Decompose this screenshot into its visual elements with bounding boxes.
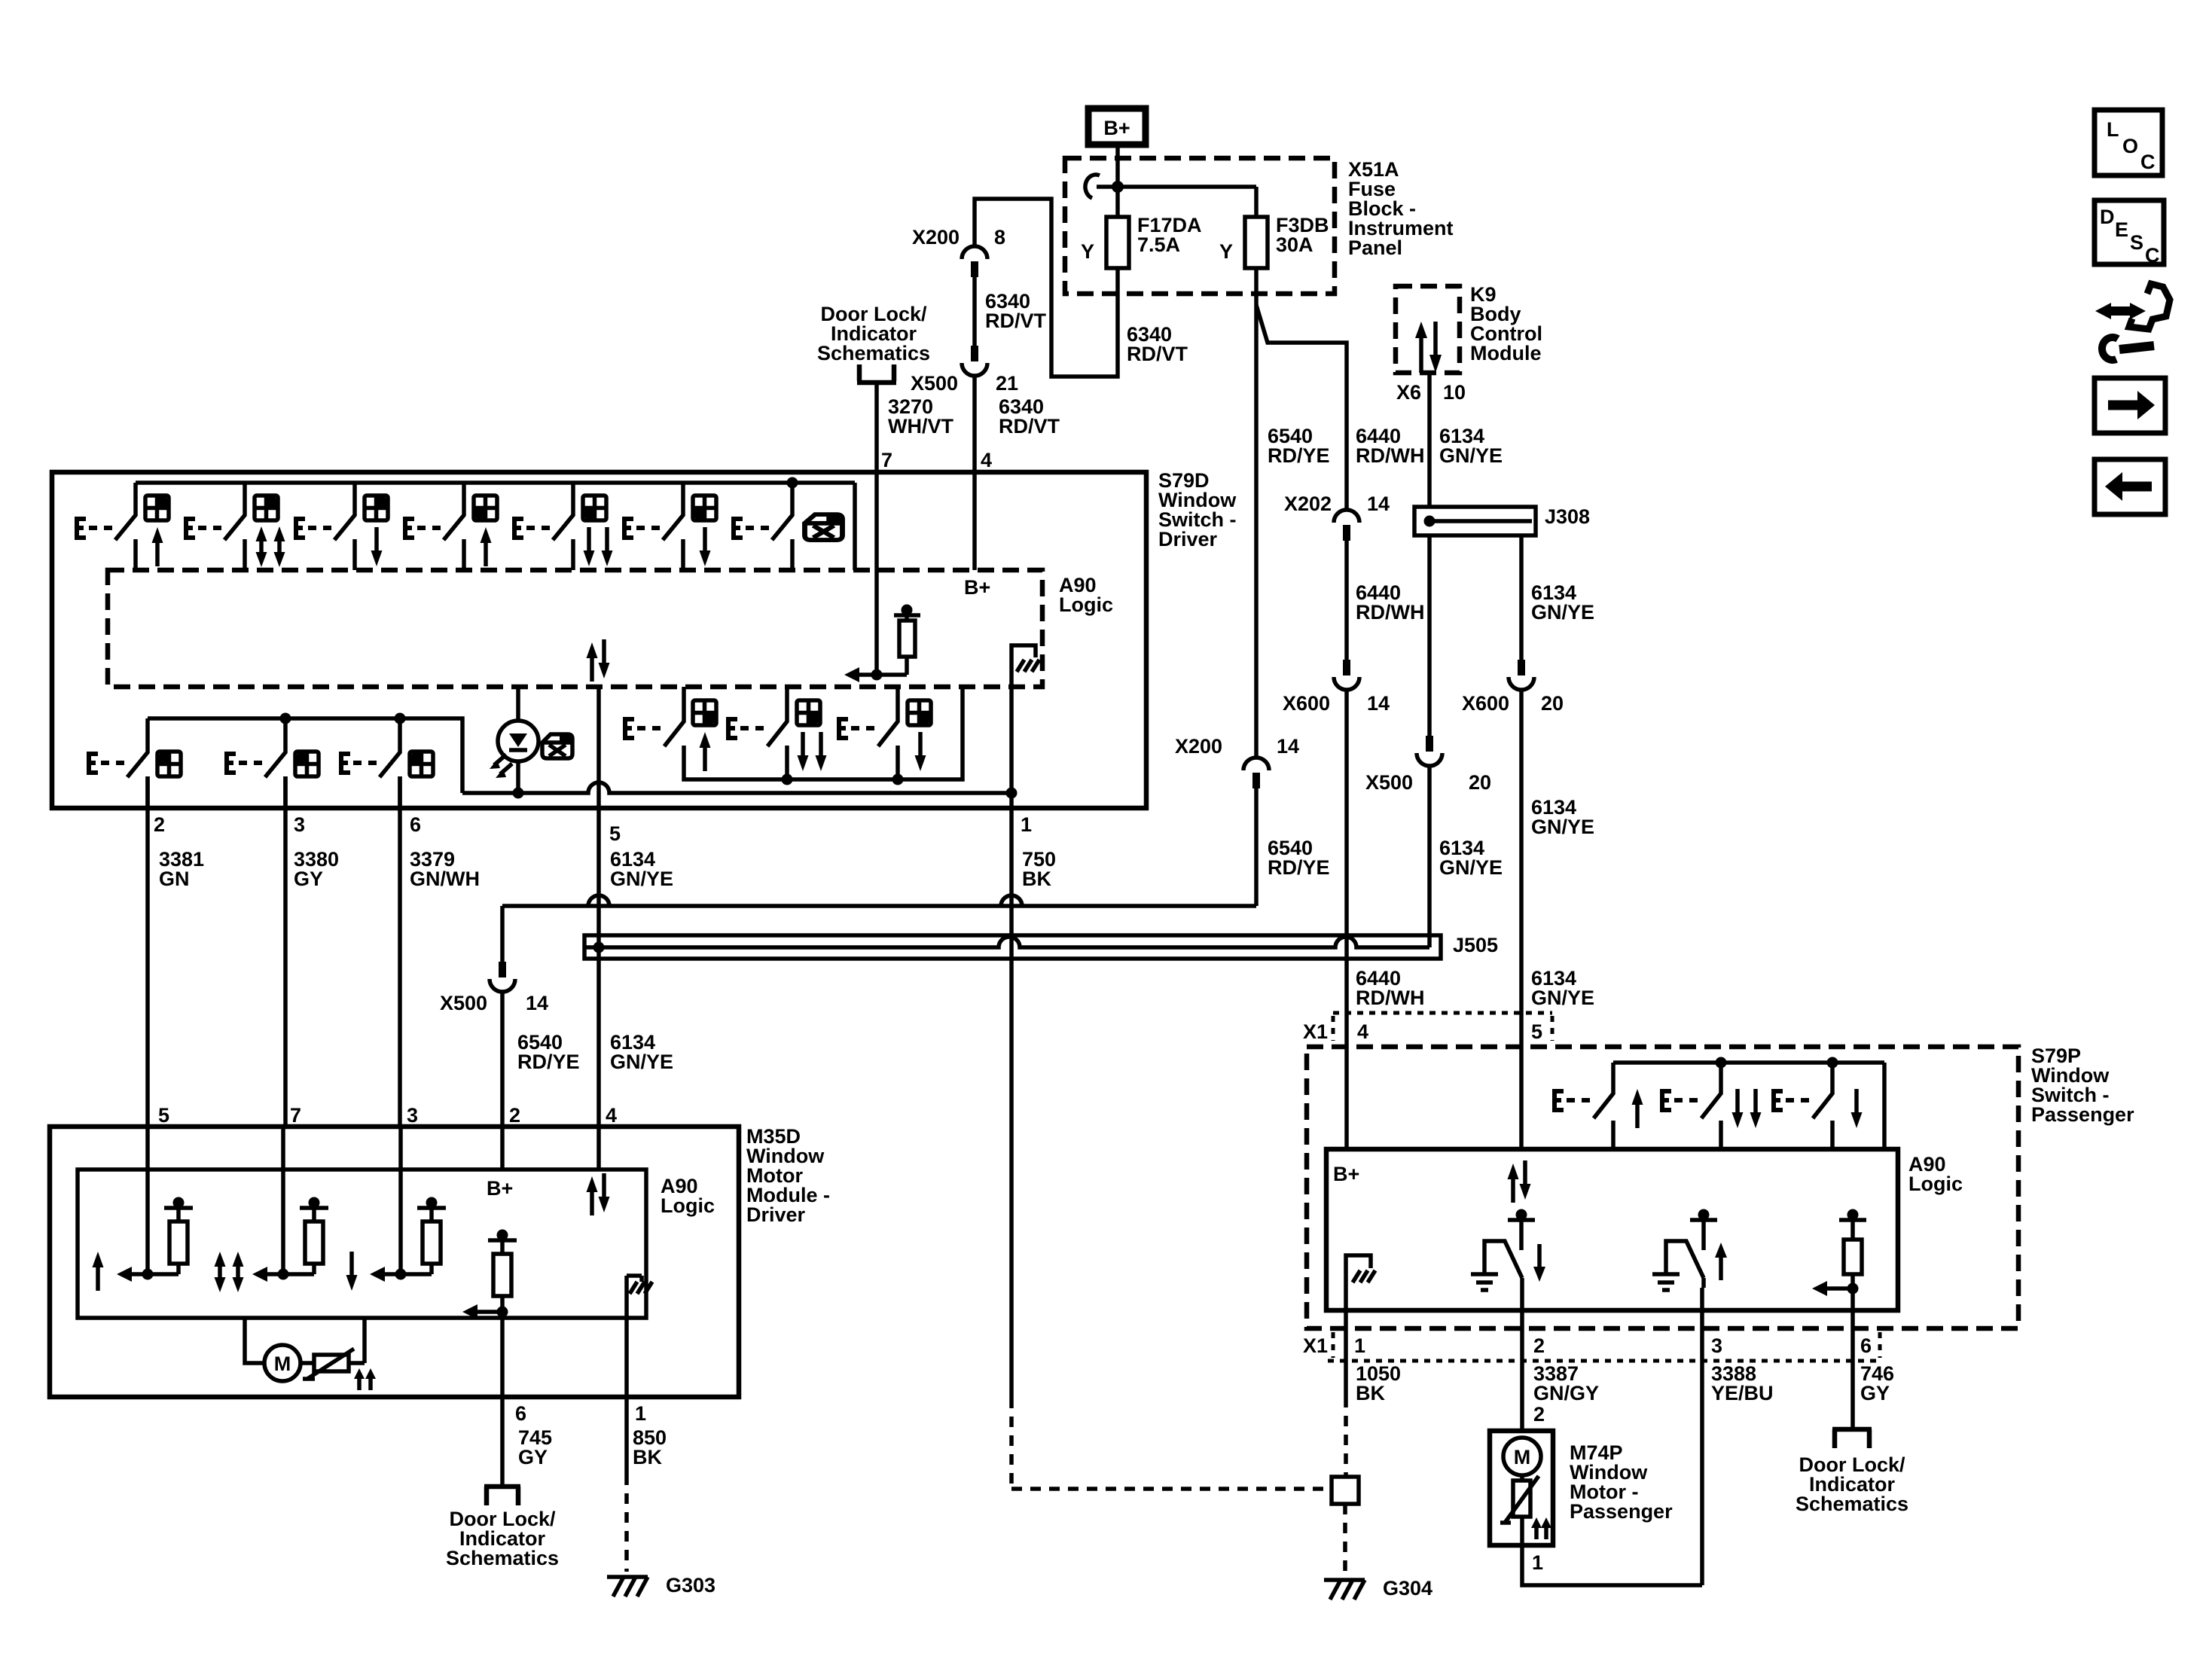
label 6134 GN/YE (x600 below) [1531,796,1594,838]
label Door Lock/Indicator Schematics (bottom left) [446,1508,559,1569]
svg-text:3: 3 [407,1104,418,1127]
row1 top bus [136,483,855,570]
hop of 6540 wire over 750 BK wire [1001,895,1022,906]
A90 logic box (S79P) [1326,1149,1898,1310]
svg-text:6: 6 [515,1402,526,1425]
B+ battery box [1088,108,1146,145]
LOC box [2095,110,2162,175]
thermistor (M74P) [1500,1476,1551,1539]
fuse F3DB [1245,217,1268,268]
connector X600 pin 14 [1334,660,1359,690]
wire M35D pin6 out 745 GY [500,1312,505,1485]
switch S3 (row1 down) [294,483,388,570]
wire K9 to J308 [1427,373,1432,507]
label M74P Window Motor - Passenger [1570,1441,1673,1523]
connector X600 pin 20 [1509,660,1534,690]
S79P switch bus [1613,1063,1884,1149]
svg-text:3: 3 [294,813,305,836]
wire 1050 BK dashed [1344,1397,1348,1477]
svg-text:14: 14 [1367,692,1390,715]
svg-text:Driver: Driver [746,1203,806,1226]
svg-text:1: 1 [635,1402,646,1425]
label 3379 GN/WH [410,848,480,890]
node row1 switch7 [787,477,798,489]
node pin7 wire at resistor line [871,669,883,681]
svg-text:X200: X200 [1175,735,1222,758]
label 6440 RD/WH (lower) [1356,967,1424,1009]
svg-text:7: 7 [881,449,892,471]
ground switch down (S79P) [1471,1209,1545,1291]
label 6340 RD/VT (upper) [985,290,1047,332]
wire S79P pin3 [1702,1278,1704,1585]
svg-text:GN/YE: GN/YE [1531,987,1594,1009]
svg-text:1: 1 [1532,1551,1543,1574]
wire pin4 stub into logic [596,1127,601,1170]
svg-text:GN/WH: GN/WH [410,868,480,890]
label S79D Window Switch - Driver [1158,469,1237,550]
svg-text:B+: B+ [487,1177,513,1200]
wire J308 to X600-20 [1519,535,1524,660]
switch S2 (row1 up/down) [184,483,285,570]
wire M35D pin1 inside [624,1276,629,1397]
node LED to bus [513,788,524,799]
label F3DB 30A [1276,214,1329,256]
label 6134 GN/YE (pin5) [610,848,673,890]
svg-text:Panel: Panel [1348,236,1402,259]
switch S13 (row3 down) [837,687,931,779]
label 6134 GN/YE (right mid) [1531,581,1594,624]
svg-text:X600: X600 [1283,692,1330,715]
svg-text:Logic: Logic [661,1194,715,1217]
wire 3270 WH/VT to S79D pin 7 [874,384,879,472]
chassis hook (S79D A90) [1011,645,1039,793]
svg-text:Y: Y [1081,240,1094,263]
svg-text:RD/WH: RD/WH [1356,444,1424,467]
svg-text:RD/YE: RD/YE [1268,444,1330,467]
connector X202 pin 14 [1334,510,1359,541]
label 3270 WH/VT [888,395,953,438]
svg-text:6: 6 [410,813,421,836]
svg-text:RD/VT: RD/VT [985,310,1047,332]
S79D box [52,472,1146,808]
svg-text:5: 5 [158,1104,169,1127]
node row3 s3 [892,774,904,785]
svg-text:X6: X6 [1396,381,1421,404]
ground switch up (S79P) [1652,1209,1727,1291]
thermistor (M35D) [303,1318,376,1390]
internal resistor (S79D A90) [858,605,920,676]
svg-text:Schematics: Schematics [817,342,930,364]
wire 850 BK dashed to ground [624,1475,629,1572]
label 6540 RD/YE (above J505) [1268,837,1330,879]
node S79P s3 [1827,1057,1838,1069]
switch S9 (row2) [224,718,319,808]
ground G304 [1324,1580,1365,1600]
switch S1 (row1 up) [75,483,169,570]
svg-text:10: 10 [1443,381,1466,404]
off-page connector Door Lock (top) [857,364,896,383]
svg-text:4: 4 [981,449,992,471]
wire F17DA output Z-route to X200-8 [975,199,1118,377]
S79P dashed box [1307,1047,2018,1328]
label 745 GY [518,1426,552,1468]
svg-text:Passenger: Passenger [1570,1500,1673,1523]
svg-text:2: 2 [154,813,165,836]
svg-text:21: 21 [996,372,1018,395]
label M35D Window Motor Module - Driver [746,1125,830,1226]
label 6440 RD/WH (mid) [1356,581,1424,624]
label 3381 GN [159,848,204,890]
svg-text:Schematics: Schematics [446,1547,559,1569]
node at fuse feed [1112,181,1124,193]
svg-text:M: M [1514,1446,1531,1468]
wire S79D pin3 [283,776,288,1127]
svg-text:X500: X500 [911,372,958,395]
node row2 s2 [280,713,291,724]
label K9 Body Control Module [1470,283,1542,364]
svg-text:Y: Y [1219,240,1233,263]
svg-text:Logic: Logic [1059,593,1113,616]
svg-text:GY: GY [294,868,323,890]
wire to G304 dashed [1343,1504,1347,1574]
wire 6540 RD/YE to M35D pin 2 [500,992,505,1127]
switch S8 (row2) [87,718,181,808]
wire S79P pin1 1050 BK solid [1344,1310,1348,1397]
node J505 pin5 tap [593,942,605,953]
harness repair icon [2095,284,2170,360]
M35D box [50,1127,739,1397]
label 6134 GN/YE (top) [1439,425,1503,467]
next page arrow box [2095,378,2165,433]
svg-text:RD/YE: RD/YE [1268,856,1330,879]
X51A label [1348,158,1454,259]
svg-text:S: S [2130,231,2143,254]
motor M (M74P) [1503,1438,1541,1481]
wire pin 4 into A90 [972,472,977,570]
wire S79P pin2 [1520,1278,1524,1431]
row2 bus [148,718,462,793]
wire S79D pin6 [398,776,402,1127]
svg-text:4: 4 [606,1104,617,1127]
fuse F17DA [1106,217,1129,268]
connector X200 pin 14 [1243,758,1269,788]
wire B+ to fuse F17DA [1115,145,1120,217]
wire 6134 GN/YE to S79P X1-5 [1519,690,1524,1149]
svg-text:X600: X600 [1462,692,1509,715]
svg-text:5: 5 [1531,1020,1542,1043]
node row2 s3 [395,713,406,724]
svg-text:5: 5 [609,822,621,845]
label 6340 RD/VT (at fuse output) [1127,323,1188,365]
LED assembly (illumination) [490,687,539,793]
dashed link from 750 BK [1011,1398,1332,1489]
svg-text:RD/WH: RD/WH [1356,987,1424,1009]
svg-text:X500: X500 [440,992,487,1014]
switch S14 (S79P up) [1552,1063,1643,1149]
svg-text:3: 3 [1711,1334,1722,1357]
svg-text:7.5A: 7.5A [1137,233,1180,256]
label Door Lock/Indicator Schematics (top) [817,303,930,364]
svg-text:X202: X202 [1284,493,1332,515]
svg-text:G304: G304 [1383,1577,1432,1600]
svg-text:20: 20 [1469,771,1491,794]
label 3387 GN/GY 2 [1533,1362,1599,1426]
svg-text:D: D [2100,206,2115,228]
svg-text:Module: Module [1470,342,1542,364]
wire 6340 RD/VT X200 to X500 [972,277,977,346]
previous page arrow box [2095,459,2165,514]
svg-text:M: M [274,1353,291,1375]
hook symbol at feed bus end [1085,175,1100,198]
ground G303 [607,1577,648,1597]
label 850 BK [633,1426,667,1468]
chassis hook (M35D) [627,1276,652,1294]
svg-text:RD/VT: RD/VT [999,415,1060,438]
wire pin7 stub into logic [281,1127,285,1274]
label F17DA 7.5A [1137,214,1202,256]
svg-text:20: 20 [1541,692,1564,715]
svg-text:1: 1 [1021,813,1032,836]
label A90 Logic (S79D) [1059,574,1113,616]
svg-text:Logic: Logic [1908,1173,1963,1195]
wire feed bus to fuse F3DB [1097,187,1256,217]
connector X200 pin 8 [962,246,987,277]
off-page connector Door Lock (bottom left) [484,1487,520,1505]
motor M (M35D) [245,1318,314,1381]
svg-text:BK: BK [1022,868,1051,890]
driver circuit up (M35D) [93,1197,194,1292]
inline connector square [1332,1477,1359,1504]
K9 down arrow [1429,322,1442,373]
up/down arrows above pin5 (S79D) [587,639,610,682]
switch S12 (row3 down/down) [726,687,827,779]
svg-text:Schematics: Schematics [1796,1493,1908,1515]
up/down arrows (S79P logic) [1508,1160,1531,1203]
svg-text:30A: 30A [1276,233,1313,256]
wire S79P pin6 746 GY [1850,1289,1855,1428]
label 6134 GN/YE (below J505) [610,1031,673,1073]
fuse block X51A dashed box [1065,158,1335,294]
svg-text:14: 14 [1367,493,1390,515]
switch S6 (row1 down) [622,483,716,570]
switch S10 (row2) [339,718,433,808]
wire 6540 RD/YE down and across to X500-14 [502,788,1256,962]
label A90 Logic (M35D) [661,1175,715,1217]
driver circuit down (M35D) [346,1197,447,1292]
wire X500-20 to J505 [1427,766,1432,935]
svg-text:G303: G303 [666,1574,715,1597]
label A90 Logic (S79P) [1908,1153,1963,1195]
label 750 BK [1022,848,1056,890]
svg-text:X1: X1 [1303,1020,1328,1043]
switch S15 (S79P down/down) [1660,1063,1762,1149]
switch S16 (S79P down) [1771,1063,1863,1149]
connector X500 pin 14 [490,962,515,992]
wire pin2 B+ stub [500,1127,505,1170]
wire 6340 RD/VT to S79D pin 4 [972,376,977,472]
switch S7 (row1 express) [731,483,843,570]
svg-text:X1: X1 [1303,1334,1328,1357]
label 6134 GN/YE (above X1-5) [1531,967,1594,1009]
svg-text:RD/YE: RD/YE [517,1051,580,1073]
svg-text:14: 14 [1277,735,1299,758]
svg-text:4: 4 [1357,1020,1368,1043]
svg-text:BK: BK [1356,1382,1385,1404]
svg-text:C: C [2140,151,2156,173]
svg-text:GY: GY [1860,1382,1890,1404]
wire 850 BK solid [624,1397,629,1475]
driver circuit up/down (M35D) [215,1197,329,1293]
svg-text:X500: X500 [1365,771,1413,794]
label 6440 RD/WH (upper) [1356,425,1424,467]
svg-text:J505: J505 [1453,934,1498,956]
up/down arrows (M35D logic) [587,1173,610,1215]
label 746 GY [1860,1362,1894,1404]
node S79P s2 [1716,1057,1727,1069]
wire S79D pin2 [145,776,150,1127]
A90 logic dashed box (driver switch) [108,570,1042,687]
connector X500 pin 20 [1417,736,1442,766]
svg-text:Driver: Driver [1158,528,1218,550]
connector X1 (bottom) [1328,1332,1881,1361]
svg-text:X200: X200 [912,226,960,249]
svg-text:Passenger: Passenger [2031,1103,2134,1126]
svg-text:B+: B+ [964,576,990,599]
svg-text:GN/YE: GN/YE [1531,816,1594,838]
svg-text:RD/VT: RD/VT [1127,343,1188,365]
svg-text:2: 2 [1533,1403,1545,1426]
arrow to door lock line (S79D A90) [844,667,859,682]
chassis hook (S79P) [1346,1255,1375,1310]
wire pin3 stub into logic [398,1127,403,1274]
label 6134 GN/YE (above J505) [1439,837,1503,879]
svg-text:2: 2 [1533,1334,1545,1357]
svg-text:1: 1 [1354,1334,1365,1357]
svg-text:J308: J308 [1545,505,1590,528]
svg-text:L: L [2107,118,2119,141]
wire 6440 RD/WH to S79P B+ [1344,690,1349,1149]
svg-text:GN: GN [159,868,190,890]
label S79P Window Switch - Passenger [2031,1045,2134,1126]
M74P box [1490,1431,1553,1545]
wire F3DB output with branch [1254,268,1259,758]
svg-text:YE/BU: YE/BU [1711,1382,1774,1404]
svg-text:O: O [2122,135,2138,157]
svg-text:GN/YE: GN/YE [1439,856,1503,879]
internal bus wire to pin1 [462,782,1011,793]
svg-text:6: 6 [1860,1334,1872,1357]
node row3 s2 [782,774,793,785]
svg-text:E: E [2115,218,2128,241]
svg-text:14: 14 [526,992,548,1014]
B+ feed resistor (M35D) [462,1230,517,1320]
label 6540 RD/YE (upper) [1268,425,1330,467]
wire J308 down to X500-20 [1427,535,1432,736]
wire branch diagonal to 6440 RD/WH [1256,305,1347,510]
splice pack J505 [584,935,1441,959]
svg-text:GN/YE: GN/YE [1439,444,1503,467]
label 6540 RD/YE (lower) [517,1031,580,1073]
svg-text:GY: GY [518,1446,548,1468]
switch S11 (row3 up) [623,687,716,771]
switch S5 (row1 down/down) [512,483,613,570]
wire pin 7 into A90 [874,472,879,675]
svg-text:C: C [2145,244,2160,267]
K9 up arrow [1415,322,1427,373]
switch S4 (row1 up) [403,483,497,570]
label 6340 RD/VT (lower) [999,395,1060,438]
wire pin5 stub into logic [145,1127,150,1274]
svg-text:2: 2 [509,1104,520,1127]
svg-text:GN/YE: GN/YE [610,868,673,890]
wire S79D pin1 750 BK [1009,793,1014,1398]
svg-text:RD/WH: RD/WH [1356,601,1424,624]
row3 switch group bus [684,687,963,779]
connector X500 pin 21 [962,346,987,376]
svg-text:B+: B+ [1333,1163,1359,1185]
svg-text:GN/GY: GN/GY [1533,1382,1599,1404]
svg-text:7: 7 [290,1104,301,1127]
wire S79D pin5 [596,687,601,1127]
wire 6440 RD/WH X202 to X600 [1344,541,1349,660]
DESC box [2095,200,2164,267]
svg-text:GN/YE: GN/YE [1531,601,1594,624]
hop of 6540 wire over pin5 wire [588,895,609,906]
A90 logic box (M35D) [78,1170,646,1318]
window icon next to LED [542,734,572,758]
svg-text:8: 8 [994,226,1005,249]
svg-text:B+: B+ [1103,117,1130,139]
splice J308 [1414,507,1536,535]
label 1050 BK [1356,1362,1401,1404]
K9 Body Control Module dashed box [1396,286,1460,373]
svg-text:GN/YE: GN/YE [610,1051,673,1073]
svg-text:BK: BK [633,1446,662,1468]
label Door Lock/Indicator Schematics (bottom right) [1796,1453,1908,1515]
door lock feed resistor (S79P) [1812,1209,1866,1297]
node bus to pin1 wire [1006,788,1018,799]
connector X1 (top) [1333,1013,1552,1041]
label 3380 GY [294,848,339,890]
svg-text:WH/VT: WH/VT [888,415,953,438]
label 3388 YE/BU [1711,1362,1774,1404]
off-page connector Door Lock (bottom right) [1832,1429,1872,1448]
wire M74P pin1 loop to pin3 [1522,1517,1702,1585]
